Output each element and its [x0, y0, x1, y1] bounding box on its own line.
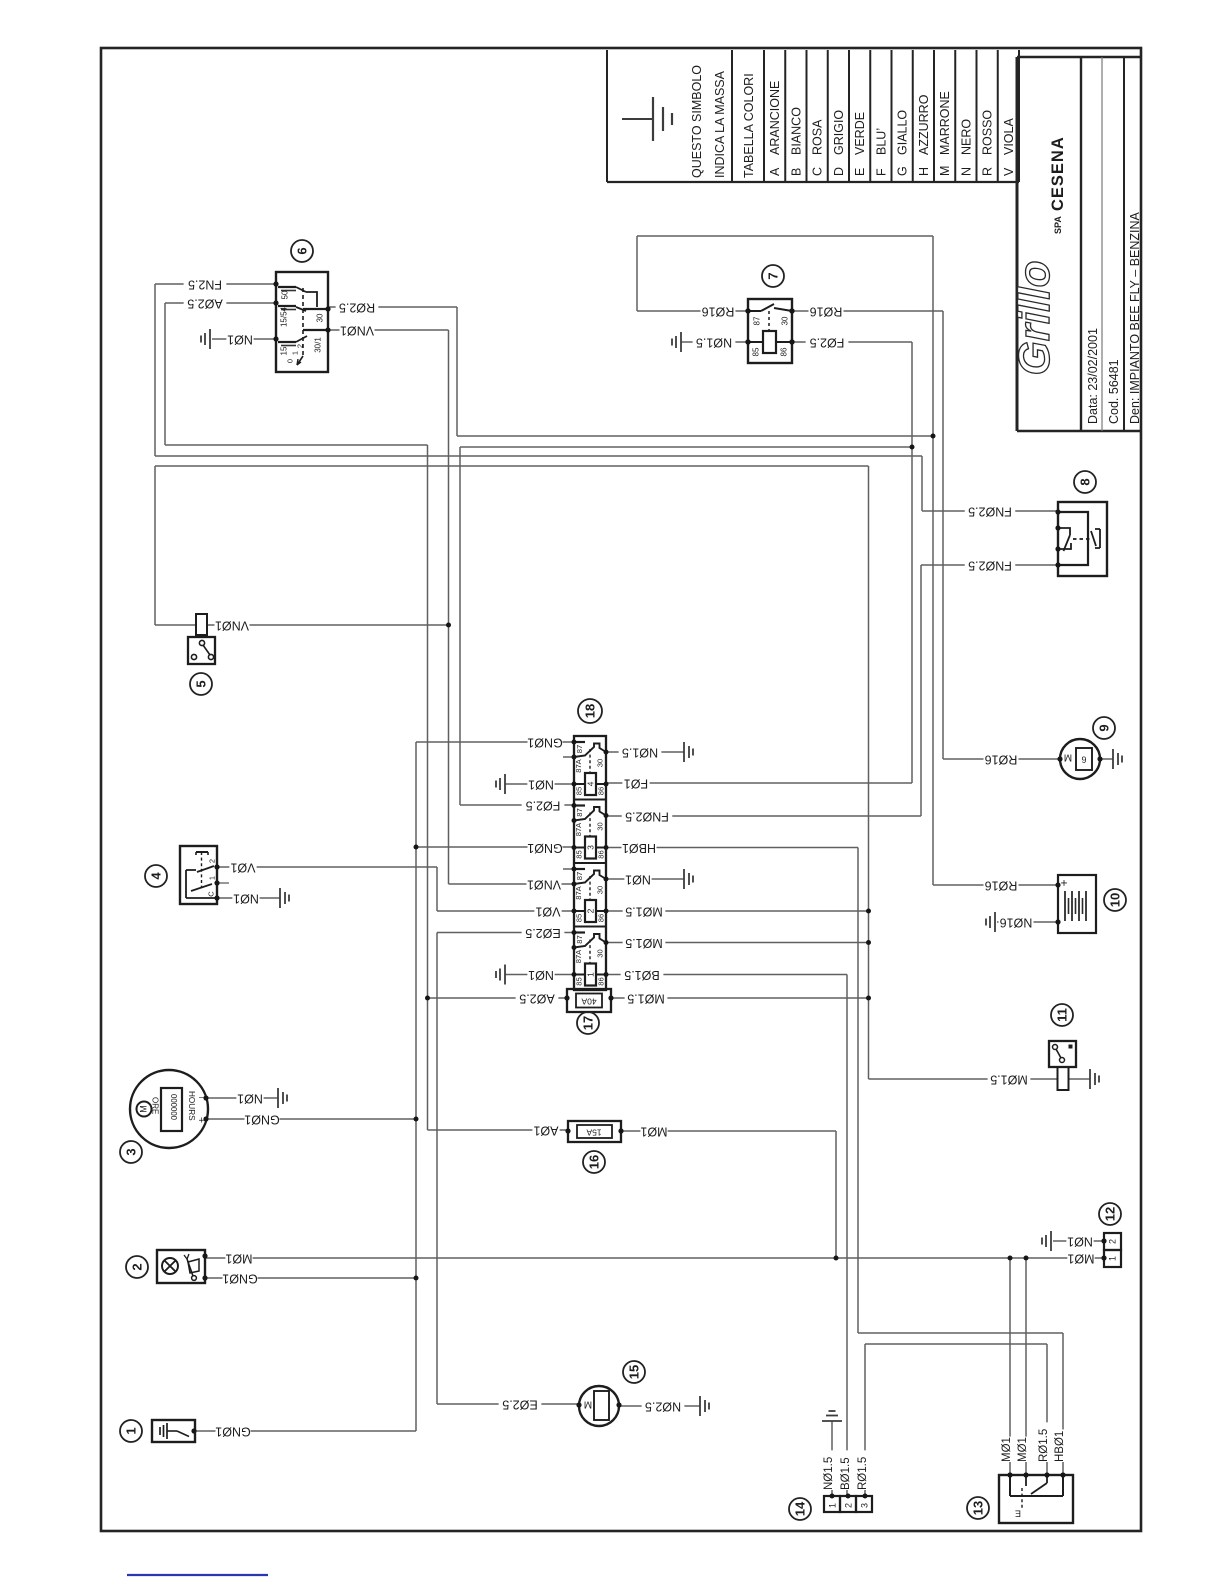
wire R016 relay 7 to starter motor 9	[792, 310, 943, 312]
ground at starter motor 9	[1100, 758, 1113, 760]
svg-text:85: 85	[575, 914, 584, 922]
warning lamp 2	[157, 1250, 205, 1283]
wire N01 connector 12 to ground	[1053, 1240, 1104, 1242]
svg-text:E: E	[1015, 1509, 1021, 1519]
relay 3 of bank 18	[574, 804, 585, 806]
svg-text:MØ1: MØ1	[640, 1125, 667, 1139]
wire N016 battery to ground	[997, 921, 1058, 923]
wire FN2.5 from key switch 6 to thermal switch 8	[155, 283, 276, 285]
svg-text:3: 3	[860, 1503, 870, 1508]
svg-text:86: 86	[597, 977, 606, 985]
svg-text:30: 30	[596, 886, 605, 894]
wire V01 hydraulic switch 4 to relay bank	[217, 866, 437, 868]
vertical labels at magneto 13	[1003, 1437, 1017, 1462]
svg-text:VERDE: VERDE	[853, 112, 867, 155]
badge 7	[762, 265, 784, 287]
badge 9	[1093, 717, 1115, 739]
svg-text:G: G	[896, 166, 910, 176]
wire N01 relay bank grounds left	[505, 783, 574, 785]
svg-text:4: 4	[149, 872, 164, 880]
fuse 16 (15A)	[568, 1121, 621, 1142]
magneto 13	[999, 1475, 1073, 1523]
svg-text:ORE: ORE	[151, 1097, 160, 1114]
svg-text:NØ1: NØ1	[528, 968, 554, 982]
svg-text:NØ1: NØ1	[625, 873, 651, 887]
svg-text:RØ16: RØ16	[985, 753, 1018, 767]
badge 16	[583, 1151, 605, 1173]
svg-text:HOURS: HOURS	[187, 1091, 196, 1121]
badge 1	[120, 1420, 142, 1442]
svg-text:R: R	[981, 167, 995, 176]
svg-text:17: 17	[581, 1016, 596, 1030]
wire N02.5 fan motor 15 to ground	[619, 1405, 700, 1407]
wire N01 switch 4 to ground	[217, 897, 280, 899]
svg-text:5: 5	[194, 680, 209, 687]
svg-text:4: 4	[586, 781, 596, 786]
relay 7 body	[748, 299, 792, 363]
wire E02.5 relay bank to fan motor 15	[437, 932, 574, 934]
svg-text:14: 14	[793, 1501, 808, 1516]
ground relay bank s4 left	[504, 965, 506, 985]
svg-text:87: 87	[575, 808, 584, 816]
thermal switch 8	[1058, 502, 1107, 576]
svg-text:50: 50	[281, 290, 290, 299]
wire B01.5 relay bank to connector 14	[606, 974, 847, 976]
svg-text:NØ1.5: NØ1.5	[823, 1457, 835, 1490]
hydraulic lift switch 4	[180, 846, 217, 904]
svg-text:MØ1: MØ1	[225, 1252, 252, 1266]
svg-text:FN2.5: FN2.5	[188, 278, 222, 292]
battery 10	[1058, 875, 1096, 933]
svg-text:HBØ1: HBØ1	[1054, 1431, 1066, 1462]
svg-text:6: 6	[295, 247, 310, 254]
svg-text:86: 86	[597, 850, 606, 858]
svg-text:AØ2.5: AØ2.5	[519, 992, 554, 1006]
svg-text:V: V	[1002, 167, 1016, 176]
svg-text:MØ1: MØ1	[1001, 1437, 1013, 1462]
fan motor 15	[579, 1386, 619, 1426]
svg-text:16: 16	[587, 1155, 602, 1169]
svg-text:EØ2.5: EØ2.5	[525, 926, 560, 940]
badge 17	[577, 1012, 599, 1034]
svg-text:000000: 000000	[169, 1094, 178, 1121]
svg-text:15: 15	[280, 346, 289, 355]
svg-text:30: 30	[316, 313, 325, 322]
wire N01 relay bank s3 to ground	[606, 878, 684, 880]
svg-text:ROSSO: ROSSO	[981, 110, 995, 155]
svg-text:30/1: 30/1	[314, 337, 323, 353]
oil pressure switch 1	[152, 1420, 195, 1442]
svg-text:AØ2.5: AØ2.5	[187, 297, 222, 311]
svg-text:NØ1.5: NØ1.5	[696, 336, 732, 350]
svg-text:2: 2	[296, 344, 305, 348]
svg-text:M: M	[138, 1105, 148, 1113]
svg-text:30: 30	[596, 822, 605, 830]
svg-text:MØ1.5: MØ1.5	[625, 936, 663, 950]
relay 2 of bank 18	[574, 868, 585, 870]
svg-text:RØ16: RØ16	[702, 305, 735, 319]
svg-text:GNØ1: GNØ1	[222, 1272, 257, 1286]
svg-text:11: 11	[1055, 1008, 1070, 1022]
svg-text:1: 1	[1108, 1256, 1118, 1261]
svg-text:0: 0	[286, 359, 295, 363]
svg-text:B: B	[789, 168, 803, 176]
wire labels	[184, 276, 227, 292]
svg-text:E: E	[853, 168, 867, 176]
badge 12	[1099, 1203, 1121, 1225]
svg-text:85: 85	[575, 787, 584, 795]
wire A02.5 from key switch 6 down to fuse 17 and fuse 16	[165, 302, 276, 304]
svg-text:NERO: NERO	[959, 119, 973, 155]
wire R016 loop around relay 7 and to battery 10	[636, 236, 638, 311]
badge 13	[967, 1497, 989, 1519]
wire FN02.5 comp8 bottom to relay bank	[606, 815, 921, 817]
svg-text:13: 13	[971, 1501, 986, 1515]
svg-text:30: 30	[596, 759, 605, 767]
svg-text:RØ16: RØ16	[985, 879, 1018, 893]
svg-text:9: 9	[1097, 724, 1112, 731]
svg-text:FNØ2.5: FNØ2.5	[968, 505, 1012, 519]
svg-text:C: C	[811, 167, 825, 176]
svg-text:NØ1: NØ1	[1067, 1235, 1093, 1249]
svg-text:12: 12	[1103, 1207, 1118, 1221]
svg-text:Cod. 56481: Cod. 56481	[1107, 359, 1121, 424]
legend table (tabella colori)	[607, 181, 1019, 183]
svg-text:87A: 87A	[574, 949, 583, 963]
blue underline mark bottom-left	[127, 1574, 268, 1576]
svg-text:3: 3	[124, 1148, 139, 1155]
relay 1 of bank 18	[574, 931, 585, 933]
svg-text:D: D	[832, 167, 846, 176]
wire R01.5 connector 14 to magneto 13	[864, 1344, 866, 1496]
svg-text:8: 8	[1078, 478, 1093, 485]
badge 6	[291, 240, 313, 262]
svg-text:30: 30	[596, 949, 605, 957]
svg-text:30: 30	[781, 316, 790, 325]
badge 4	[145, 865, 167, 887]
badge 14	[789, 1498, 811, 1520]
svg-text:15/54: 15/54	[280, 306, 289, 327]
ground at fan motor 15	[699, 1396, 701, 1416]
wire VN01 from key switch 6 down to safety switch 5 and relay bank	[328, 329, 449, 331]
svg-text:GIALLO: GIALLO	[896, 110, 910, 155]
key switch 6 internals	[296, 287, 306, 292]
svg-text:BLU’: BLU’	[874, 128, 888, 155]
svg-text:N: N	[959, 167, 973, 176]
svg-text:Den: IMPIANTO BEE FLY – BENZIN: Den: IMPIANTO BEE FLY – BENZINA	[1128, 211, 1142, 424]
ground at relay 7	[680, 332, 682, 352]
drawing frame border	[101, 48, 1141, 1531]
connector 12	[1104, 1233, 1121, 1250]
hour meter 3	[130, 1070, 208, 1148]
svg-text:VNØ1: VNØ1	[340, 324, 374, 338]
svg-text:MØ1: MØ1	[1017, 1437, 1029, 1462]
svg-text:GNØ1: GNØ1	[215, 1425, 250, 1439]
svg-text:QUESTO SIMBOLO: QUESTO SIMBOLO	[690, 65, 704, 178]
svg-text:SPA: SPA	[1053, 216, 1063, 234]
ground relay bank s1 left	[504, 774, 506, 794]
svg-text:87: 87	[753, 316, 762, 325]
badge 2	[126, 1256, 148, 1278]
svg-text:HBØ1: HBØ1	[622, 841, 656, 855]
ground at connector 12	[1050, 1231, 1052, 1251]
svg-text:F: F	[874, 168, 888, 176]
svg-text:85: 85	[752, 347, 761, 356]
svg-text:FØ2.5: FØ2.5	[526, 799, 561, 813]
svg-text:FØ2.5: FØ2.5	[810, 336, 845, 350]
legend ground symbol	[622, 118, 653, 120]
svg-text:INDICA LA MASSA: INDICA LA MASSA	[713, 70, 727, 178]
svg-text:EØ2.5: EØ2.5	[502, 1398, 537, 1412]
svg-text:87A: 87A	[574, 885, 583, 899]
wire GN01 bus from relay bank down left side	[416, 741, 574, 743]
connector 14	[824, 1496, 840, 1512]
junction dots	[931, 434, 936, 439]
svg-text:1: 1	[828, 1503, 838, 1508]
wire N01.5 relay 7 to ground	[681, 341, 748, 343]
svg-text:87: 87	[575, 872, 584, 880]
svg-text:15A: 15A	[586, 1127, 601, 1137]
wire F02.5 net relay bank to relay 7	[459, 447, 461, 805]
ground at key switch 6	[209, 329, 211, 349]
svg-text:6: 6	[1081, 755, 1086, 765]
svg-text:BØ1.5: BØ1.5	[840, 1457, 852, 1490]
svg-text:NØ1: NØ1	[233, 892, 259, 906]
switch 11	[1049, 1041, 1076, 1067]
svg-text:FNØ2.5: FNØ2.5	[625, 810, 669, 824]
ground at switch 11	[1069, 1078, 1090, 1080]
svg-text:85: 85	[575, 977, 584, 985]
badge 8	[1074, 471, 1096, 493]
svg-text:7: 7	[766, 272, 781, 279]
vertical labels at connector 14	[825, 1450, 839, 1490]
svg-text:VØ1: VØ1	[230, 861, 255, 875]
svg-text:3: 3	[586, 845, 596, 850]
svg-text:15: 15	[627, 1365, 642, 1379]
svg-text:C: C	[207, 891, 216, 897]
stub 87 relay bank s3	[563, 868, 574, 870]
svg-text:GRIGIO: GRIGIO	[832, 110, 846, 155]
svg-text:VNØ1: VNØ1	[527, 878, 561, 892]
ground relay bank s3 right	[683, 869, 685, 889]
svg-text:MØ1.5: MØ1.5	[625, 905, 663, 919]
svg-text:CESENA: CESENA	[1049, 136, 1067, 211]
relay bank 18 outer box	[574, 736, 606, 990]
svg-text:86: 86	[597, 787, 606, 795]
svg-text:GNØ1: GNØ1	[244, 1113, 279, 1127]
svg-text:+: +	[1060, 876, 1067, 890]
svg-text:RØ1.5: RØ1.5	[1038, 1429, 1050, 1462]
svg-text:M: M	[938, 166, 952, 176]
ground at battery 10	[994, 912, 996, 932]
wire F01 relay bank to F-net vertical	[606, 782, 912, 784]
svg-text:MØ1: MØ1	[1067, 1252, 1094, 1266]
svg-text:BØ1.5: BØ1.5	[624, 968, 659, 982]
svg-text:2: 2	[208, 859, 217, 863]
svg-text:1: 1	[586, 972, 596, 977]
key switch 6 body	[276, 272, 328, 372]
svg-text:RØ16: RØ16	[810, 305, 843, 319]
svg-text:NØ1: NØ1	[227, 333, 253, 347]
ground at switch 4	[279, 888, 281, 908]
svg-text:NØ1: NØ1	[528, 778, 554, 792]
relay 4 of bank 18	[574, 741, 585, 743]
svg-text:87A: 87A	[574, 758, 583, 772]
wire N01.5 relay bank s1 to ground	[606, 751, 684, 753]
wire M01 bus from fuse 16 to connector 12 and lamp 2	[621, 1130, 836, 1132]
badge 15	[623, 1361, 645, 1383]
svg-text:GNØ1: GNØ1	[527, 841, 562, 855]
wire N01 hour meter 3 to ground	[207, 1097, 278, 1099]
svg-text:1: 1	[291, 351, 300, 355]
svg-text:RØ2.5: RØ2.5	[339, 301, 375, 315]
svg-text:10: 10	[1108, 893, 1123, 907]
wire HB01 relay bank to magneto 13	[606, 847, 858, 849]
svg-text:M: M	[584, 1398, 592, 1409]
svg-text:FNØ2.5: FNØ2.5	[968, 559, 1012, 573]
badge 11	[1051, 1004, 1073, 1026]
badge 3	[120, 1141, 142, 1163]
svg-text:87A: 87A	[574, 822, 583, 836]
safety switch 5	[196, 614, 207, 635]
svg-text:RØ1.5: RØ1.5	[857, 1457, 869, 1490]
svg-text:18: 18	[583, 704, 598, 718]
svg-text:NØ1: NØ1	[237, 1092, 263, 1106]
svg-text:87: 87	[575, 745, 584, 753]
wire R02.5 from key switch 6 to battery bus	[328, 306, 457, 308]
svg-text:1: 1	[208, 876, 217, 880]
title block border	[1016, 57, 1019, 431]
svg-text:M: M	[1064, 751, 1072, 762]
svg-text:87: 87	[575, 935, 584, 943]
svg-text:2: 2	[1108, 1239, 1118, 1244]
svg-text:1: 1	[124, 1427, 139, 1434]
wire VN01 safety switch 5 horizontal	[207, 624, 449, 626]
main fuse 17 (40A)	[567, 989, 611, 1012]
svg-text:TABELLA COLORI: TABELLA COLORI	[742, 73, 756, 178]
svg-text:AØ1: AØ1	[533, 1124, 558, 1138]
badge 5	[190, 673, 212, 695]
svg-text:MARRONE: MARRONE	[938, 91, 952, 155]
svg-text:VØ1: VØ1	[535, 905, 560, 919]
badge 18	[578, 699, 602, 723]
svg-text:Grillo: Grillo	[1010, 261, 1059, 376]
svg-text:86: 86	[780, 347, 789, 356]
stub 87A relay bank s1	[563, 756, 574, 758]
svg-text:ROSA: ROSA	[811, 119, 825, 155]
svg-text:40A: 40A	[581, 996, 596, 1006]
svg-text:Data: 23/02/2001: Data: 23/02/2001	[1086, 328, 1100, 424]
svg-text:2: 2	[586, 908, 596, 913]
badge 10	[1104, 889, 1126, 911]
svg-text:BIANCO: BIANCO	[789, 107, 803, 155]
svg-text:2: 2	[130, 1263, 145, 1270]
svg-text:NØ2.5: NØ2.5	[645, 1400, 681, 1414]
svg-text:VIOLA: VIOLA	[1002, 118, 1016, 155]
wire M01.5 relay bank to M bus	[606, 910, 869, 912]
svg-text:NØ1.5: NØ1.5	[622, 746, 658, 760]
svg-text:ARANCIONE: ARANCIONE	[768, 81, 782, 155]
ground at connector 14	[822, 1420, 842, 1422]
svg-text:H: H	[917, 167, 931, 176]
wire N01 key switch 6 to ground	[212, 338, 276, 340]
svg-text:86: 86	[597, 914, 606, 922]
ground at hour meter 3	[277, 1088, 279, 1108]
svg-text:–: –	[199, 1094, 204, 1104]
svg-text:VNØ1: VNØ1	[215, 619, 249, 633]
svg-text:GNØ1: GNØ1	[527, 736, 562, 750]
svg-text:MØ1.5: MØ1.5	[990, 1073, 1028, 1087]
svg-text:85: 85	[575, 850, 584, 858]
stub terminal 1 switch 4	[217, 882, 229, 884]
wire N01.5 connector 14 to ground	[831, 1421, 833, 1496]
ground relay bank s1 right	[683, 742, 685, 762]
svg-text:AZZURRO: AZZURRO	[917, 94, 931, 155]
starter motor 9	[1060, 739, 1100, 779]
svg-text:MØ1.5: MØ1.5	[627, 992, 665, 1006]
svg-text:FØ1: FØ1	[624, 777, 648, 791]
wire M-net from safety switch 5 fuse to M01.5 bus	[154, 466, 156, 625]
svg-text:NØ16: NØ16	[1000, 916, 1033, 930]
svg-text:A: A	[768, 167, 782, 176]
svg-text:2: 2	[844, 1503, 854, 1508]
